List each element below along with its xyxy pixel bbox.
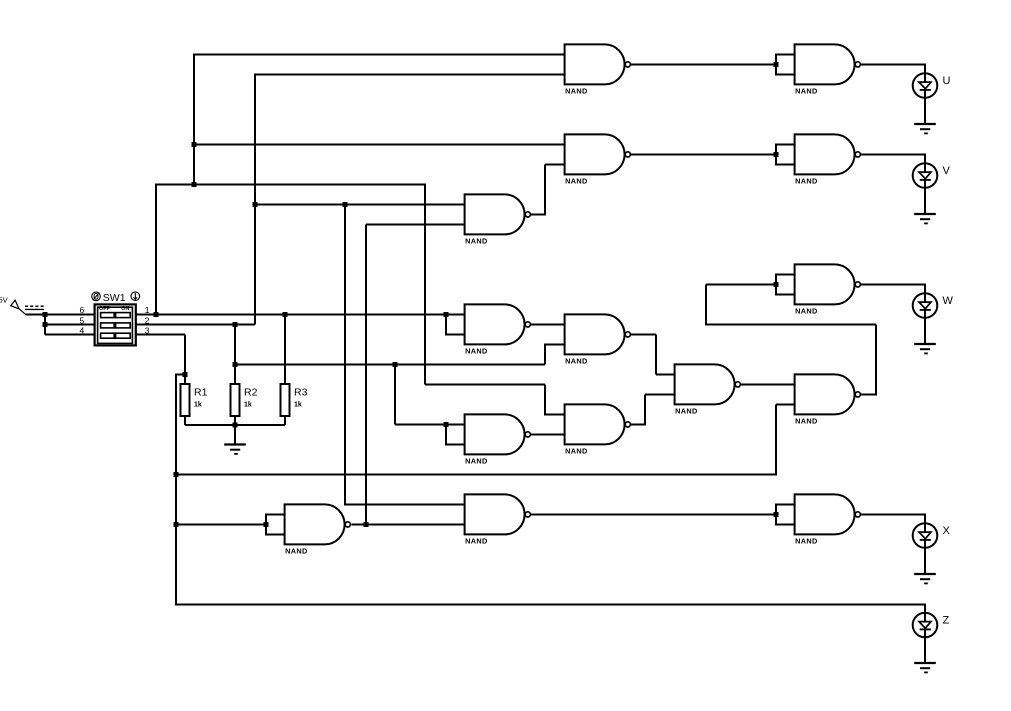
NAND gate U6 (W driver)	[795, 264, 861, 315]
svg-text:R2: R2	[244, 387, 258, 399]
wire U2 tied-input stub lower	[775, 73, 796, 75]
wire inverter out to X-left lower input	[352, 523, 466, 525]
svg-text:NAND: NAND	[465, 457, 487, 466]
wire W loop to W-gate input	[706, 283, 776, 285]
wire U4 tied-input stub vertical	[775, 144, 777, 164]
wire D out riser x876	[875, 324, 877, 395]
NAND gate U15 (D)	[795, 374, 861, 425]
svg-text:1: 1	[145, 305, 150, 315]
svg-text:NAND: NAND	[565, 447, 587, 456]
wire lamp U drop	[924, 63, 926, 74]
svg-text:NAND: NAND	[465, 347, 487, 356]
wire invout to G5 lower input	[366, 223, 466, 225]
wire U2 tied-input stub upper	[775, 53, 796, 55]
wire pin3 drop x185	[184, 334, 186, 374]
wire lamp U to ground	[924, 97, 926, 124]
wire lamp Z to ground	[924, 636, 926, 663]
svg-text:NAND: NAND	[795, 307, 817, 316]
NAND gate U4 (V row buffer)	[795, 134, 861, 185]
svg-text:U: U	[943, 75, 951, 87]
wire W loop horizontal y324	[706, 323, 876, 325]
junction U4 tied-input junction	[773, 152, 778, 157]
wire G1 out to G2 input	[631, 63, 776, 65]
wire net1 horizontal y184	[155, 183, 425, 185]
wire riser x776 to D lower input	[775, 404, 777, 475]
NAND gate U2 (U row buffer)	[795, 44, 861, 95]
junction U7 tied-input junction	[443, 312, 448, 317]
junction left-bus/long-wire	[173, 472, 178, 477]
svg-text:OFF: OFF	[99, 306, 110, 312]
wire 5V feed to pin6	[26, 313, 95, 315]
wire E out riser	[644, 394, 646, 425]
wire U7 tied-input stub vertical	[445, 313, 447, 334]
svg-text:NAND: NAND	[795, 537, 817, 546]
wire R3 riser	[284, 314, 286, 384]
wire U6 tied-input stub lower	[775, 293, 796, 295]
wire pin2 to G5 top input	[255, 203, 466, 205]
wire 5V bus vertical	[44, 313, 46, 334]
wire R2net to G9 inputs	[395, 423, 466, 425]
wire D lower input horizontal	[776, 403, 796, 405]
wire vertical x194	[193, 53, 195, 184]
wire Z horizontal y604	[175, 603, 925, 605]
ground lamp U ground	[914, 124, 936, 133]
NAND gate U7 (inverter row 4)	[465, 304, 531, 355]
wire net1 to E-gate top input	[544, 413, 566, 415]
junction R2net/R2	[232, 362, 237, 367]
wire E out	[631, 423, 645, 425]
wire 5V feed to pin4	[45, 333, 95, 335]
wire net1 to V-gate top input	[193, 143, 566, 145]
wire resistor common horizontal y425	[185, 424, 285, 426]
wire W loop riser x706	[705, 284, 707, 325]
wire G8 out to F top input	[656, 373, 676, 375]
NAND gate U10 (merge F)	[675, 364, 741, 415]
wire R2 riser	[234, 324, 236, 384]
svg-text:V: V	[943, 165, 951, 177]
wire D out	[861, 393, 876, 395]
wire inverter input horizontal	[176, 523, 266, 525]
wire long horizontal y474	[176, 473, 776, 475]
wire G9 out to E lower input	[531, 433, 566, 435]
svg-text:NAND: NAND	[795, 417, 817, 426]
indicator lamp U	[913, 73, 938, 98]
wire ground stub	[234, 425, 236, 444]
ground lamp X ground	[914, 574, 936, 583]
junction U12 tied-input junction	[263, 522, 268, 527]
wire U6 tied-input stub vertical	[775, 274, 777, 294]
wire vertical x395	[394, 364, 396, 424]
wire net1 horizontal y384	[425, 383, 545, 385]
wire pin2 horizontal	[136, 323, 255, 325]
DIP switch SW1	[95, 304, 136, 345]
NAND gate U14 (X row buffer)	[795, 494, 861, 545]
wire R2net to G8 lower input	[544, 343, 566, 345]
wire R2 stub bottom	[234, 416, 236, 425]
junction 5V/pin5	[42, 322, 47, 327]
ground resistor ground	[224, 445, 246, 454]
wire X-right out	[861, 513, 925, 515]
svg-text:2: 2	[145, 315, 150, 325]
wire net1 to U-gate top input	[193, 53, 566, 55]
wire pin1 riser left	[155, 183, 157, 314]
junction U6 tied-input junction	[773, 282, 778, 287]
wire G5 out riser	[544, 164, 546, 215]
wire lamp W to ground	[924, 317, 926, 344]
wire U12 tied-input stub upper	[265, 513, 286, 515]
junction pin1/R3	[282, 312, 287, 317]
svg-text:5V: 5V	[0, 296, 8, 305]
wire G5 out to V-left lower input	[545, 163, 566, 165]
wire 5V feed to pin5	[45, 323, 95, 325]
NAND gate U9 (inverter row 5)	[465, 414, 531, 465]
wire U14 tied-input stub vertical	[775, 504, 777, 524]
wire R1 stub bottom	[184, 416, 186, 425]
ground lamp V ground	[914, 214, 936, 223]
wire Z lamp drop	[924, 603, 926, 614]
wire U12 tied-input stub vertical	[265, 514, 267, 534]
junction net1/vertical194	[191, 182, 196, 187]
resistor R1 1k	[181, 384, 208, 416]
svg-text:6: 6	[80, 305, 85, 315]
wire G3 out to G4 input	[631, 153, 776, 155]
wire G5 out	[531, 213, 545, 215]
svg-text:X: X	[943, 525, 951, 537]
junction left-bus/inverter-in	[173, 522, 178, 527]
wire U6 tied-input stub upper	[775, 273, 796, 275]
wire pin2 to X-left gate top input	[344, 503, 466, 505]
junction 5V/pin6	[42, 312, 47, 317]
wire G7 out to G8 top input	[531, 323, 566, 325]
svg-text:W: W	[943, 295, 954, 307]
junction U2 tied-input junction	[773, 62, 778, 67]
wire vertical x345	[344, 204, 346, 504]
wire U9 tied-input stub lower	[445, 443, 466, 445]
wire R2 net horizontal y364	[235, 363, 545, 365]
wire pin3 horizontal	[136, 333, 185, 335]
wire pin2 riser x255	[254, 73, 256, 324]
wire G4 out	[861, 153, 925, 155]
wire vertical x545 to E	[544, 384, 546, 414]
wire vertical x425	[424, 183, 426, 384]
NAND gate U11 (row 5 middle E)	[565, 404, 631, 455]
indicator lamp W	[913, 293, 938, 318]
NAND gate U1 (U row driver)	[565, 44, 631, 95]
wire F out to D top input	[741, 383, 796, 385]
junction pin2/y204 tap	[252, 202, 257, 207]
resistor R2 1k	[231, 384, 258, 416]
wire R1 stub top	[184, 374, 186, 384]
junction pin1/left-bus	[153, 312, 158, 317]
svg-text:NAND: NAND	[565, 177, 587, 186]
wire pin1 horizontal	[136, 313, 466, 315]
wire X-left out to X-right input	[531, 513, 776, 515]
svg-text:1k: 1k	[294, 402, 302, 409]
wire lamp W drop	[924, 283, 926, 294]
power source 5V	[0, 296, 44, 315]
junction net1/V-row tap	[191, 142, 196, 147]
svg-text:Z: Z	[943, 615, 950, 627]
svg-text:NAND: NAND	[795, 177, 817, 186]
wire E out to F lower input	[645, 393, 676, 395]
wire pin3 jog left	[175, 373, 185, 375]
indicator lamp V	[913, 163, 938, 188]
indicator lamp Z	[913, 613, 938, 638]
wire vertical x366	[365, 224, 367, 524]
svg-text:R1: R1	[194, 387, 208, 399]
resistor R3 1k	[281, 384, 308, 416]
svg-text:1k: 1k	[194, 402, 202, 409]
NAND gate U8 (row 4 middle)	[565, 314, 631, 365]
NAND gate U3 (V row driver)	[565, 134, 631, 185]
wire W out	[861, 283, 925, 285]
wire U12 tied-input stub lower	[265, 533, 286, 535]
svg-text:NAND: NAND	[565, 87, 587, 96]
svg-text:NAND: NAND	[675, 407, 697, 416]
junction Rcommon/ground	[232, 422, 237, 427]
svg-text:3: 3	[145, 326, 150, 336]
svg-text:NAND: NAND	[565, 357, 587, 366]
svg-text:NAND: NAND	[465, 537, 487, 546]
wire lamp X to ground	[924, 547, 926, 574]
svg-text:NAND: NAND	[285, 547, 307, 556]
svg-text:R3: R3	[294, 387, 308, 399]
wire G8 out	[631, 333, 656, 335]
wire lamp X drop	[924, 513, 926, 524]
svg-text:5: 5	[80, 315, 85, 325]
wire U4 tied-input stub upper	[775, 143, 796, 145]
junction U14 tied-input junction	[773, 512, 778, 517]
NAND gate U12 (feedback inverter)	[285, 504, 351, 555]
wire U7 tied-input stub lower	[445, 333, 466, 335]
junction invout/vertical366	[363, 522, 368, 527]
junction pin2/R2	[232, 322, 237, 327]
wire R3 stub bottom	[284, 416, 286, 425]
SW1 label	[92, 292, 140, 304]
wire G8 out drop	[655, 334, 657, 374]
wire vertical x545 to G8	[544, 344, 546, 364]
svg-text:ON: ON	[121, 306, 129, 312]
wire lamp V drop	[924, 153, 926, 164]
junction pin3/R1	[182, 372, 187, 377]
junction y204/vertical345	[342, 202, 347, 207]
wire U4 tied-input stub lower	[775, 163, 796, 165]
junction U9 tied-input junction	[443, 422, 448, 427]
ground lamp Z ground	[914, 663, 936, 672]
indicator lamp X	[913, 523, 938, 548]
ground lamp W ground	[914, 344, 936, 353]
NAND gate U13 (X row driver)	[465, 494, 531, 545]
junction R2net/vertical395	[392, 362, 397, 367]
wire lamp V to ground	[924, 187, 926, 214]
wire U9 tied-input stub vertical	[445, 423, 447, 444]
NAND gate U5 (row 3)	[465, 194, 531, 245]
SW1 pin numbers	[80, 305, 150, 335]
wire G2 out	[861, 63, 925, 65]
wire left bus vertical x175	[175, 374, 177, 603]
svg-text:1k: 1k	[244, 402, 252, 409]
wire pin2 to U-gate lower input	[254, 73, 566, 75]
svg-text:NAND: NAND	[465, 237, 487, 246]
svg-text:NAND: NAND	[795, 87, 817, 96]
wire U14 tied-input stub lower	[775, 523, 796, 525]
svg-text:SW1: SW1	[103, 292, 126, 304]
wire U2 tied-input stub vertical	[775, 54, 777, 74]
wire U14 tied-input stub upper	[775, 503, 796, 505]
svg-text:4: 4	[80, 326, 85, 336]
